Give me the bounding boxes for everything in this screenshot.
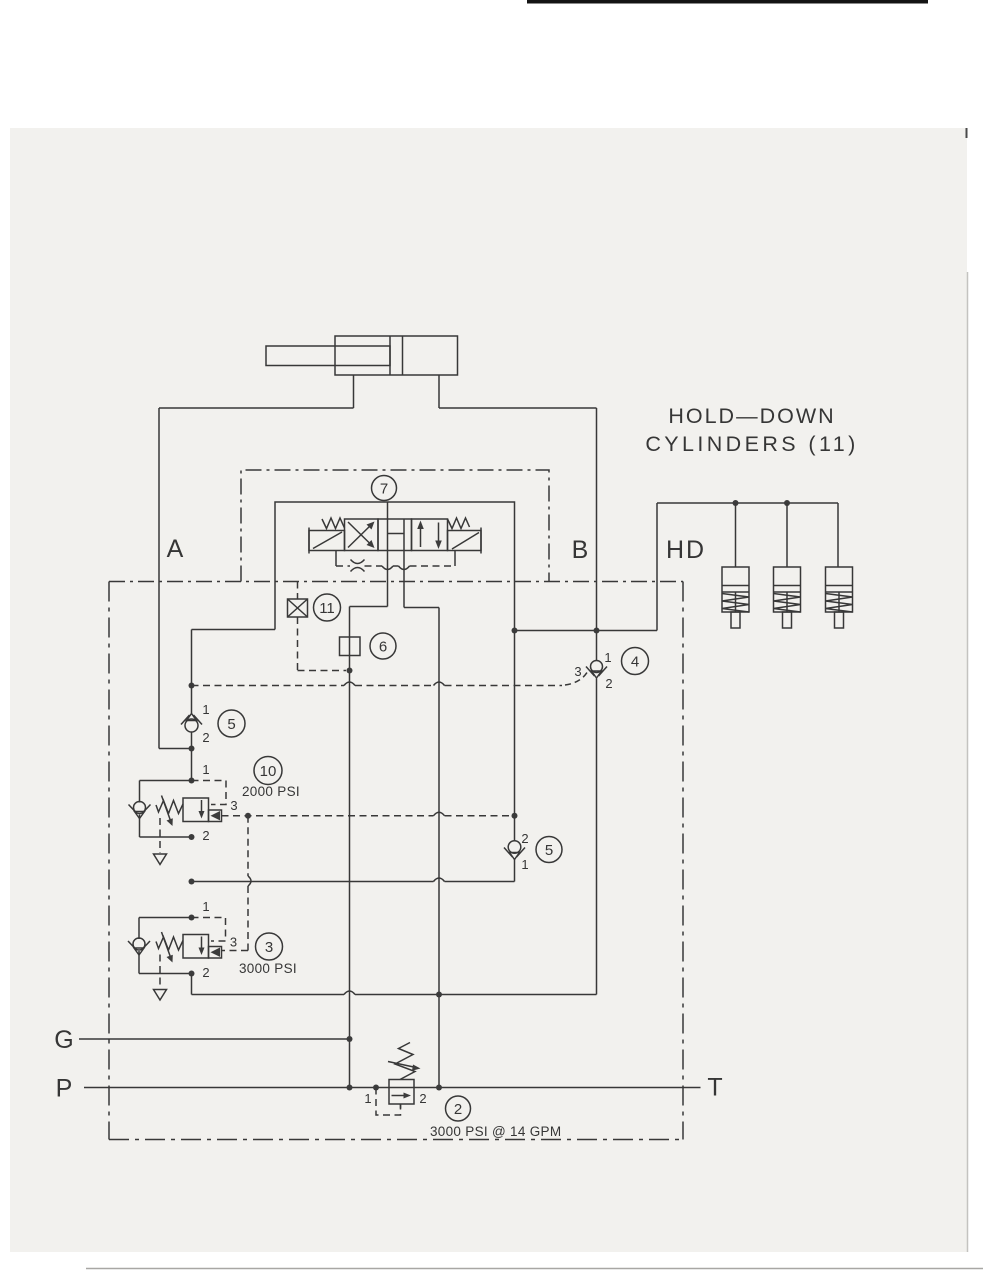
pilot line from plug 11 [298, 617, 347, 671]
node HD bus junction 2 [784, 500, 790, 506]
svg-text:3: 3 [230, 798, 237, 813]
U7 pilot dashed box [336, 559, 455, 570]
relief valve RV3 port1 node [189, 915, 195, 921]
valve 2 body [389, 1080, 414, 1105]
node G branch junction [189, 879, 195, 885]
svg-text:P: P [56, 1075, 73, 1103]
wire B main vertical drop [438, 608, 440, 1088]
component 6 orifice block [340, 637, 361, 656]
svg-text:2: 2 [202, 965, 209, 980]
check valve CV5b line [504, 631, 525, 882]
RV10 spring [156, 801, 183, 814]
U7 crossed arrows [348, 522, 375, 549]
RV3 pilot sense dashed [192, 918, 226, 942]
node RV10 port2 [189, 834, 195, 840]
balloon 5 [218, 710, 245, 737]
balloon 3 [256, 933, 283, 960]
RV10 adjust arrow [162, 796, 173, 827]
svg-text:2: 2 [454, 1101, 462, 1118]
wire A to main drop [350, 606, 388, 608]
svg-text:5: 5 [227, 716, 235, 733]
wire A main vertical drop [349, 607, 351, 1088]
svg-text:G: G [54, 1026, 73, 1054]
node junction B drop / HD [512, 628, 518, 634]
svg-text:3: 3 [230, 935, 237, 950]
balloon 11 [314, 594, 341, 621]
check valve CV5a [181, 630, 202, 781]
top border bar [527, 0, 928, 4]
wire P line [84, 1087, 701, 1089]
node junction A on P [347, 1085, 353, 1091]
U7 right spring [448, 518, 470, 529]
svg-text:5: 5 [545, 842, 553, 859]
node HD bus junction 1 [733, 500, 739, 506]
RV10 bypass loop wire [140, 781, 192, 838]
svg-text:1: 1 [521, 857, 528, 872]
svg-text:2000 PSI: 2000 PSI [242, 784, 300, 799]
wire HD drop 3 [837, 503, 839, 567]
wire A joins check line [159, 748, 192, 750]
RV10 drain line [154, 818, 167, 865]
balloon 2 [446, 1096, 471, 1121]
node junction B bottom [436, 992, 442, 998]
svg-text:1: 1 [202, 702, 209, 717]
RV10 bypass check valve [129, 802, 151, 819]
balloon 6 [370, 633, 396, 659]
wire main line to bottom [191, 974, 193, 995]
RV3 valve body [183, 935, 222, 959]
cylinder rod [266, 346, 390, 366]
wire HD riser [656, 503, 658, 631]
RV10 pilot sense dashed [192, 781, 227, 805]
svg-text:1: 1 [604, 650, 611, 665]
svg-text:3: 3 [574, 664, 581, 679]
svg-text:2: 2 [202, 730, 209, 745]
check valve CV4 [586, 661, 607, 679]
wire HD drop 1 [735, 503, 737, 567]
U7 orifice symbol [351, 560, 365, 572]
wire G line [79, 1038, 350, 1040]
wire center bridge [388, 533, 405, 535]
balloon 10 [254, 757, 282, 785]
node junction pilot tap valve 2 [373, 1085, 379, 1091]
U7 left spring [322, 518, 345, 529]
U7 parallel arrows [417, 521, 442, 550]
cylinder barrel [335, 336, 458, 375]
pilot dashed line to CV4 port 3 [192, 673, 588, 686]
svg-text:10: 10 [260, 763, 277, 780]
wire A header horizontal [159, 407, 354, 409]
svg-text:1: 1 [364, 1091, 371, 1106]
hold-down cylinder 3 [826, 567, 853, 628]
RV10 valve body [183, 798, 222, 822]
svg-text:4: 4 [631, 654, 639, 671]
RV3 spring [156, 937, 183, 950]
wire HD bus [657, 502, 838, 504]
wire cylinder cap-end port [353, 375, 355, 408]
component 11 plug (box with X) [288, 582, 308, 618]
RV3 adjust arrow [162, 932, 173, 963]
node RV3 port2 [189, 971, 195, 977]
U7 right solenoid [448, 528, 482, 554]
svg-text:1: 1 [202, 899, 209, 914]
wire valve A work line [387, 502, 389, 607]
svg-text:11: 11 [319, 600, 335, 617]
U7 left solenoid [309, 528, 345, 554]
svg-text:A: A [167, 535, 184, 563]
node junction cyl line / HD [594, 628, 600, 634]
balloon 7 [372, 476, 397, 501]
wire CV5b to main line [192, 878, 515, 882]
solenoid valve U7 body [345, 519, 448, 551]
wire bottom cross line [192, 991, 597, 995]
svg-text:6: 6 [379, 639, 387, 656]
RV10 vent pilot dashed to line and down [222, 812, 513, 950]
svg-text:2: 2 [605, 676, 612, 691]
node pilot junction [245, 813, 251, 819]
valve 2 spring [395, 1043, 415, 1080]
RV3 bypass loop wire [139, 918, 192, 974]
label HOLD-DOWN CYLINDERS (11) [645, 404, 858, 456]
balloon 4 [622, 648, 649, 675]
wire B header horizontal [439, 407, 597, 409]
svg-text:2: 2 [521, 831, 528, 846]
valve 2 pilot dashed [376, 1088, 401, 1116]
hold-down cylinder 2 [774, 567, 801, 628]
relief valve RV10 port1 node [189, 778, 195, 784]
wire B right vertical down to check valve 4 [596, 408, 598, 995]
svg-text:7: 7 [380, 481, 388, 498]
node pilot tap on CV5b line [512, 813, 518, 819]
wire cylinder rod-end port [438, 375, 440, 408]
svg-text:T: T [707, 1074, 722, 1102]
U7 pilot stubs [336, 551, 455, 560]
svg-text:2: 2 [202, 828, 209, 843]
svg-text:3000 PSI @ 14 GPM: 3000 PSI @ 14 GPM [430, 1124, 561, 1139]
wire HD drop 2 [786, 503, 788, 567]
wire valve-7 manifold box [192, 502, 515, 631]
node junction pilot tap [189, 683, 195, 689]
node junction B on P [436, 1085, 442, 1091]
outer dash-dot boundary [109, 582, 683, 1140]
wire HD branch horizontal [515, 630, 658, 632]
svg-text:2: 2 [419, 1091, 426, 1106]
hold-down cylinder 1 [722, 567, 749, 628]
wire B to right drop [404, 607, 439, 609]
RV3 bypass check valve [128, 938, 150, 955]
main dash-dot boundary top [109, 581, 683, 583]
svg-text:CYLINDERS (11): CYLINDERS (11) [645, 432, 858, 456]
wire valve B work line [403, 519, 405, 608]
svg-text:B: B [572, 536, 589, 564]
balloon 5b [536, 837, 562, 863]
RV3 drain line [154, 955, 167, 1001]
svg-text:1: 1 [202, 762, 209, 777]
cylinder piston [390, 336, 403, 375]
valve 2 adjust arrow [388, 1062, 421, 1071]
node junction on A line [347, 668, 353, 674]
svg-text:3000 PSI: 3000 PSI [239, 961, 297, 976]
node junction G on A line [347, 1036, 353, 1042]
svg-text:3: 3 [265, 939, 273, 956]
node junction A join [189, 746, 195, 752]
svg-text:HD: HD [666, 536, 706, 564]
wire A left vertical [158, 408, 160, 749]
valve 7 dash-dot enclosure [241, 470, 549, 582]
svg-text:HOLD—DOWN: HOLD—DOWN [668, 404, 835, 428]
